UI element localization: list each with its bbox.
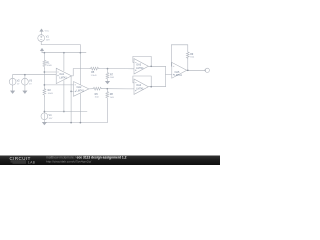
ground below R7 [106, 81, 110, 84]
wire R5 to OA3 plus [99, 68, 134, 70]
op-amp OA4 [134, 79, 148, 94]
OA1 VCC pin [63, 53, 65, 71]
bottom bus lower [44, 122, 107, 124]
svg-text:LM741: LM741 [136, 87, 144, 90]
node dot OA5 out [187, 69, 189, 71]
op-amp OA5 [172, 62, 187, 78]
OA2 VCC pin (from V1 wire) [79, 53, 81, 85]
svg-text:LM741: LM741 [59, 76, 67, 79]
wire V1 to bus [41, 42, 80, 53]
op-amp OA2 [74, 82, 89, 97]
svg-text:http://circuitlab.com/c/7pv4qm: http://circuitlab.com/c/7pv4qm2q/ [46, 159, 91, 163]
svg-text:LM741: LM741 [136, 67, 144, 70]
svg-text:1.5kΩ: 1.5kΩ [91, 75, 97, 77]
node dot R7 top [107, 68, 109, 70]
op-amp OA3 [134, 59, 148, 74]
wire OA4 output [148, 86, 165, 88]
wire OA2 output [89, 88, 93, 90]
node dot chain/bottom bus [44, 111, 46, 113]
node dot R8 top [106, 88, 108, 90]
bottom bus upper [44, 111, 87, 113]
node dot OA1 VEE/bus [63, 111, 65, 113]
svg-text:1kΩ: 1kΩ [95, 97, 99, 99]
node dot bus/OA1 VCC [63, 52, 65, 54]
source V2 [9, 78, 16, 85]
footer bar [0, 156, 220, 166]
svg-text:LM741: LM741 [175, 74, 183, 77]
wire chain bottom [43, 97, 45, 113]
wire OA5 output [187, 69, 205, 71]
OA3 feedback loop [133, 56, 151, 66]
wire sources bus to OA1 plus [13, 74, 57, 77]
wire OA3 out to OA5 plus [165, 66, 167, 86]
resistor R2 [43, 89, 46, 97]
wire OA1 output up [72, 69, 90, 76]
V1 plus minus marks [40, 36, 42, 40]
wire into OA2 plus [71, 90, 73, 92]
OA5 feedback loop [171, 45, 188, 66]
node dot OA2 plus tap [70, 91, 72, 93]
node B dot [44, 84, 46, 86]
svg-text:1kΩ: 1kΩ [110, 77, 114, 79]
node dot lower bus [70, 122, 72, 124]
OA1 VEE pin [63, 81, 65, 112]
OA2 input marks [75, 85, 76, 92]
OA4 input marks [135, 83, 136, 92]
ground below V2 [11, 91, 15, 94]
resistor R5 [90, 67, 100, 70]
output node flag [204, 69, 207, 71]
node dot OA3 out [150, 65, 152, 67]
source V3 [22, 78, 29, 85]
node dot lower bus 2 [80, 122, 82, 124]
wire OA1 minus [44, 71, 56, 73]
svg-text:VCC: VCC [45, 31, 50, 33]
wire R6 to OA4 plus [103, 88, 134, 90]
svg-text:10V: 10V [46, 39, 50, 41]
svg-text:10kΩ: 10kΩ [46, 65, 52, 67]
svg-text:LM741: LM741 [77, 89, 85, 92]
node A dot [44, 71, 46, 73]
resistor R7 vertical [106, 69, 109, 82]
wire OA2 minus [44, 84, 73, 86]
node dot OA4 out [150, 86, 152, 88]
wire chain top [43, 53, 45, 61]
OA3 input marks [135, 62, 136, 71]
ground below V3 [23, 91, 27, 94]
op-amp OA1 [56, 68, 71, 83]
node dot bus/chain [44, 52, 46, 54]
node dot bus/V1 [80, 52, 82, 54]
top bus wire [42, 52, 86, 54]
power flag VCC on bus [40, 48, 43, 52]
wire OA1 output down to OA2 plus [70, 76, 72, 123]
wire chain mid [43, 68, 45, 89]
resistor R8 vertical [106, 89, 109, 123]
ground below V4 [42, 122, 46, 125]
OA4 feedback loop [133, 76, 151, 87]
resistor R9 in feedback [186, 52, 189, 70]
svg-text:1kΩ: 1kΩ [190, 56, 194, 58]
wire OA3 output [148, 65, 165, 67]
OA1 input marks [57, 72, 58, 76]
voltage source V4 [41, 113, 48, 120]
OA2 VEE pin [79, 94, 81, 123]
OA5 input marks [173, 66, 174, 75]
power flag VCC top [40, 29, 43, 35]
wire step to OA5 plus [166, 74, 172, 76]
resistor R6 [93, 87, 102, 90]
svg-text:1kΩ: 1kΩ [110, 97, 114, 99]
voltage source V1 [38, 35, 45, 42]
svg-text:10V: 10V [49, 118, 53, 120]
svg-text:LAB: LAB [28, 160, 35, 164]
svg-text:10kΩ: 10kΩ [48, 93, 54, 95]
resistor R1 [43, 60, 46, 68]
node dot V3 top [24, 74, 26, 76]
